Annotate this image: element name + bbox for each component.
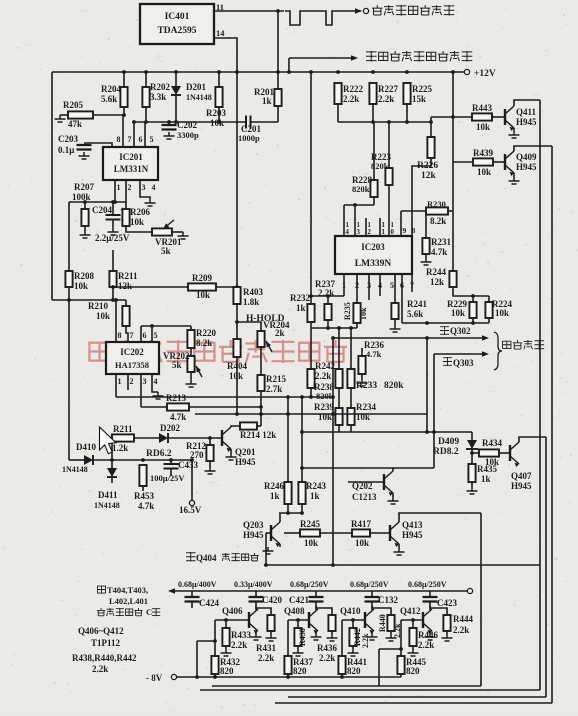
wire row y432 to D409 <box>302 431 472 433</box>
svg-text:Q302: Q302 <box>450 326 471 336</box>
node right col/rail <box>451 70 455 74</box>
resistor R443 <box>472 113 492 120</box>
wire bottom row 2 <box>200 689 540 691</box>
ground at R236 <box>357 379 368 386</box>
wire row y513 <box>279 512 302 514</box>
ground at VR202 <box>186 380 197 387</box>
wire to VR204 <box>237 322 261 331</box>
ground at Q409 <box>509 177 520 184</box>
wire IC203 pin2 riser <box>356 274 358 303</box>
svg-text:1000p: 1000p <box>238 133 260 143</box>
transistor Q413 H945 <box>390 522 399 547</box>
terminal 16.5V <box>189 500 194 505</box>
svg-text:R235: R235 <box>343 302 352 320</box>
svg-text:R226: R226 <box>417 161 438 171</box>
wire right vertical 3 <box>545 437 547 697</box>
svg-text:D201: D201 <box>186 82 206 92</box>
svg-text:R243: R243 <box>306 481 326 491</box>
node pin14/rail <box>235 70 239 74</box>
wire Q202 base <box>348 481 384 483</box>
svg-text:0.1μ: 0.1μ <box>58 145 74 155</box>
svg-text:2k: 2k <box>275 328 285 338</box>
svg-text:R222: R222 <box>343 84 363 94</box>
resistor R201 <box>274 89 281 106</box>
svg-text:2.2k: 2.2k <box>453 625 469 635</box>
svg-text:2.7k: 2.7k <box>266 384 282 394</box>
svg-text:C132: C132 <box>378 595 398 605</box>
terminal output right <box>467 588 472 593</box>
svg-text:- 8V: - 8V <box>146 673 163 683</box>
resistor R202 <box>142 87 149 107</box>
svg-text:D411: D411 <box>98 490 118 500</box>
node 3color/rail <box>287 70 291 74</box>
svg-text:1: 1 <box>391 222 395 229</box>
svg-text:C204: C204 <box>92 205 112 215</box>
svg-text:6: 6 <box>139 135 143 144</box>
wire Q202 emitter <box>392 493 394 497</box>
resistor R404 <box>233 339 240 357</box>
wire drop from Q302 line <box>426 338 428 432</box>
svg-text:+12V: +12V <box>474 69 496 79</box>
node R227/rail <box>371 70 375 74</box>
diode D201 1N4148 <box>171 86 181 95</box>
wire Q201 collector to R214 <box>231 426 240 427</box>
wire row y296 <box>311 295 344 297</box>
wire rail2 y122 <box>338 121 431 123</box>
resistor R204 <box>120 87 127 107</box>
wire under R229/R224 <box>402 322 489 324</box>
terminal +12V <box>464 69 469 74</box>
wire Q203 base drop <box>265 533 267 565</box>
svg-text:4: 4 <box>346 229 350 236</box>
wire Q412 base corner down <box>400 620 402 656</box>
wire Q201 emitter <box>230 449 232 453</box>
wire IC203 pin11 riser <box>379 218 381 236</box>
ground at Q411 <box>509 131 520 138</box>
capacitor C423 <box>423 597 438 602</box>
wire drop from Q303 line <box>433 354 435 468</box>
svg-text:R211: R211 <box>113 424 133 434</box>
svg-text:Q410: Q410 <box>340 606 361 616</box>
wire IC203 pin6 riser <box>401 274 403 323</box>
wire to 16.5V terminal <box>191 460 193 500</box>
wire Q411 collector <box>514 100 540 106</box>
svg-text:D202: D202 <box>160 423 180 433</box>
svg-text:R241: R241 <box>407 299 427 309</box>
text 'to' (CJK) <box>443 357 452 366</box>
resistor R220 <box>187 330 194 348</box>
svg-text:C433: C433 <box>178 460 198 470</box>
node Q302 wire start <box>331 336 335 340</box>
resistor R435 <box>468 464 475 482</box>
wire Q406 collector <box>255 606 257 610</box>
wire IC201 pin7 riser <box>122 115 124 147</box>
svg-text:2.2k: 2.2k <box>378 94 394 104</box>
svg-text:2: 2 <box>128 183 132 192</box>
svg-text:H945: H945 <box>402 530 423 540</box>
svg-text:R245: R245 <box>300 519 320 529</box>
svg-text:H945: H945 <box>516 162 537 172</box>
svg-text:2.2k: 2.2k <box>258 653 274 663</box>
wire R215 col down to R214 <box>260 391 262 426</box>
svg-text:10k: 10k <box>96 311 110 321</box>
node R211/R209 <box>111 285 115 289</box>
svg-text:Q201: Q201 <box>235 447 256 457</box>
node R202/rail <box>144 70 148 74</box>
capacitor C424 <box>185 597 200 602</box>
wire bottom row 3 <box>288 696 546 698</box>
wire row y468 to Q202 collector <box>302 467 434 469</box>
wire drop to +12V rail <box>288 58 290 72</box>
wire inner box left edge <box>378 649 380 686</box>
wire IC203 pin1 riser <box>343 274 345 296</box>
svg-text:2.2k: 2.2k <box>319 653 335 663</box>
wire to Q302 <box>333 337 486 339</box>
wire +12V rail <box>52 71 464 73</box>
svg-text:5.6k: 5.6k <box>407 309 423 319</box>
svg-text:R204: R204 <box>101 84 121 94</box>
wire Q202 collector <box>392 468 394 471</box>
node R204/R205 <box>122 113 126 117</box>
svg-text:Q413: Q413 <box>402 520 423 530</box>
svg-text:1: 1 <box>118 377 122 386</box>
svg-text:100μ/25V: 100μ/25V <box>150 473 185 483</box>
wire to R213 <box>141 406 167 408</box>
resistor R440 <box>387 615 394 631</box>
svg-text:0.68μ/250V: 0.68μ/250V <box>408 580 447 589</box>
capacitor C433 100u/25V <box>164 464 179 469</box>
capacitor C202 3300p <box>162 125 177 130</box>
svg-text:Q404: Q404 <box>196 553 217 563</box>
ground at R205 <box>55 115 66 122</box>
wire feed row y641 <box>197 640 215 642</box>
potentiometer VR202 body <box>187 356 194 372</box>
svg-text:1N4148: 1N4148 <box>62 465 88 474</box>
wire Q408 base row <box>288 619 309 621</box>
svg-text:12k: 12k <box>430 277 444 287</box>
svg-text:1N4148: 1N4148 <box>186 93 212 102</box>
resistor R241 <box>391 303 398 319</box>
resistor R206 <box>122 209 129 226</box>
diode D410 1N4148 <box>84 455 93 465</box>
ground at VR201 <box>178 232 189 239</box>
resistor R239 <box>335 408 342 425</box>
transistor Q407 H945 <box>510 442 519 467</box>
svg-text:H945: H945 <box>511 481 532 491</box>
svg-text:L402,L401: L402,L401 <box>109 596 148 606</box>
svg-text:4.7k: 4.7k <box>138 501 154 511</box>
svg-text:R234: R234 <box>356 402 376 412</box>
svg-text:R417: R417 <box>351 519 371 529</box>
svg-text:15k: 15k <box>412 94 426 104</box>
wire Q410 collector <box>371 606 373 610</box>
svg-text:4: 4 <box>154 377 158 386</box>
svg-text:R230: R230 <box>427 199 446 209</box>
mouse cursor arrow <box>100 427 117 454</box>
capacitor C421 <box>309 597 324 602</box>
transistor Q202 C1213 <box>384 471 393 496</box>
resistor R237 <box>324 304 331 320</box>
node D201/rail <box>174 70 178 74</box>
wire row y328 <box>311 327 357 329</box>
svg-text:R403: R403 <box>243 287 263 297</box>
svg-text:8: 8 <box>412 226 416 235</box>
svg-text:5: 5 <box>154 331 158 340</box>
svg-text:1: 1 <box>117 183 121 192</box>
svg-text:IC203: IC203 <box>361 242 385 252</box>
svg-text:2: 2 <box>130 377 134 386</box>
capacitor C203 0.1u <box>77 145 92 150</box>
wire to R443 <box>431 116 472 118</box>
svg-text:R206: R206 <box>130 207 150 217</box>
resistor R227 <box>369 83 376 104</box>
svg-text:8.2k: 8.2k <box>430 216 446 226</box>
resistor R432 <box>211 656 218 674</box>
svg-text:R246: R246 <box>264 481 284 491</box>
svg-text:10k: 10k <box>359 307 368 320</box>
svg-text:R202: R202 <box>150 82 170 92</box>
resistor R211 12k <box>109 271 116 287</box>
wire IC201 pin1 riser <box>114 180 116 202</box>
diode D202 zener RD6.2 <box>159 433 168 443</box>
brace for field-amp adjust <box>494 332 502 370</box>
svg-text:9: 9 <box>403 226 407 235</box>
svg-text:12k: 12k <box>118 281 132 291</box>
resistor R205 <box>68 111 93 118</box>
wire IC203 pin4 riser <box>379 274 381 296</box>
wire Q203 base <box>266 532 271 534</box>
resistor R210 <box>122 306 129 326</box>
wire to D410 <box>69 459 84 461</box>
wire col x288 down to R246 <box>287 397 289 482</box>
wire to IC202 pin8 <box>115 300 117 342</box>
wire row y300 <box>52 299 126 301</box>
text 'to 3-color display control circuit' (CJK) <box>366 51 377 62</box>
IC U IC201 LM331N box <box>103 147 158 180</box>
diode D411 1N4148 <box>107 468 117 477</box>
wire D410 row <box>93 459 192 461</box>
wire IC203 pin5 riser <box>394 274 396 303</box>
resistor R232 <box>307 304 314 322</box>
wire Q406 base corner down <box>214 620 216 656</box>
wire Q203 collector <box>279 513 281 522</box>
resistor R453 <box>139 465 146 486</box>
text 'H sync pulse input' (CJK) <box>372 5 383 15</box>
svg-text:2.2μ/25V: 2.2μ/25V <box>95 233 130 243</box>
svg-text:Q203: Q203 <box>243 520 264 530</box>
svg-text:HA17358: HA17358 <box>115 360 149 370</box>
svg-text:5: 5 <box>150 135 154 144</box>
svg-text:3: 3 <box>357 229 361 236</box>
wire long vertical x333 <box>332 338 334 565</box>
ground at C202 <box>164 132 175 139</box>
wire R211b to D202 <box>134 437 159 439</box>
wire Q410 base row <box>342 619 365 621</box>
node bus/rail <box>309 70 313 74</box>
wire IC201 pin2 to R206 <box>125 180 127 209</box>
ground at Q201 <box>226 453 237 460</box>
potentiometer VR204 body <box>257 331 264 347</box>
ground at R435 <box>467 487 478 494</box>
svg-text:0.68μ/250V: 0.68μ/250V <box>350 580 389 589</box>
svg-text:D410: D410 <box>76 442 96 452</box>
ground at R241 <box>390 325 401 332</box>
ground at C203 <box>79 152 90 159</box>
svg-text:7: 7 <box>128 135 132 144</box>
svg-text:5.6k: 5.6k <box>101 94 117 104</box>
svg-text:2.2k: 2.2k <box>343 94 359 104</box>
svg-text:6: 6 <box>143 331 147 340</box>
svg-text:47k: 47k <box>68 119 82 129</box>
svg-text:1: 1 <box>368 222 372 229</box>
wire Q408 base corner down <box>287 620 289 656</box>
wire Q406 emitter <box>255 631 257 633</box>
op-amp U IC401 TDA2595 box <box>140 4 214 44</box>
wire IC202 pin5 riser <box>151 326 153 342</box>
transistor Q406 TIP112 <box>249 609 258 634</box>
node R201 col/rail <box>276 70 280 74</box>
svg-text:1.8k: 1.8k <box>243 297 259 307</box>
svg-text:R433: R433 <box>231 630 251 640</box>
ground IC201 pin3 <box>145 199 156 206</box>
wire IC202 pin2 down <box>127 374 129 390</box>
svg-text:LM339N: LM339N <box>355 259 392 269</box>
svg-text:H945: H945 <box>243 530 264 540</box>
svg-text:R231: R231 <box>431 237 451 247</box>
wire Q412 emitter <box>429 631 431 633</box>
wire row y397 <box>116 396 333 398</box>
wire R211b left down <box>111 438 113 460</box>
resistor R236 <box>358 356 365 374</box>
wire IC203 pin12 riser <box>365 218 367 236</box>
svg-text:R232: R232 <box>290 293 310 303</box>
resistor R211 1.2k <box>112 434 134 441</box>
IC U IC202 HA17358 box <box>106 342 159 374</box>
IC U IC203 LM339N box <box>335 236 412 274</box>
svg-text:10k: 10k <box>477 167 491 177</box>
resistor R215 2.7k <box>257 375 264 391</box>
svg-text:Q412: Q412 <box>400 606 421 616</box>
svg-text:2.2k: 2.2k <box>92 664 108 674</box>
svg-text:R225: R225 <box>412 84 432 94</box>
svg-text:R443: R443 <box>472 103 492 113</box>
svg-text:LM331N: LM331N <box>114 164 149 174</box>
svg-text:10k: 10k <box>130 217 144 227</box>
resistor R235 <box>353 303 360 323</box>
svg-text:820: 820 <box>347 666 361 676</box>
svg-text:RD6.2: RD6.2 <box>146 449 172 459</box>
svg-text:1k: 1k <box>481 474 491 484</box>
wire IC202 pin6 riser <box>140 326 142 342</box>
resistor R234 <box>347 408 354 425</box>
svg-text:2.2k: 2.2k <box>418 640 434 650</box>
svg-text:R220: R220 <box>196 328 216 338</box>
resistor <box>349 628 356 646</box>
resistor R208 <box>65 271 72 287</box>
svg-text:0.68μ/250V: 0.68μ/250V <box>290 580 329 589</box>
resistor R213 <box>167 403 189 410</box>
svg-text:100k: 100k <box>72 192 91 202</box>
svg-text:10k: 10k <box>229 371 243 381</box>
resistor R437 <box>284 656 291 674</box>
wire R210 to IC202 pin7 <box>126 326 128 342</box>
node R222/rail <box>336 70 340 74</box>
wire col x302 down to R243 <box>301 397 303 482</box>
wire Q408 collector <box>315 606 317 610</box>
svg-text:R440: R440 <box>378 614 387 632</box>
wire row y414 <box>195 413 427 415</box>
svg-text:R444: R444 <box>453 614 473 624</box>
svg-text:2.2k: 2.2k <box>361 633 370 648</box>
text 'via T404,T403,L402,L401 to line output transistor C' (CJK) <box>98 586 106 593</box>
svg-text:R439: R439 <box>473 148 493 158</box>
waveform sync pulse symbol <box>285 11 342 25</box>
svg-text:14: 14 <box>216 28 225 38</box>
wire pin14 column down to R403 <box>236 72 238 287</box>
svg-text:3: 3 <box>142 183 146 192</box>
wire Q413 emitter <box>398 544 400 548</box>
svg-text:5k: 5k <box>161 246 171 256</box>
svg-text:7: 7 <box>130 331 134 340</box>
capacitor C201 1000p <box>246 116 251 129</box>
resistor R224 <box>485 302 492 318</box>
svg-text:R431: R431 <box>256 643 276 653</box>
svg-text:0.33μ/400V: 0.33μ/400V <box>234 580 273 589</box>
resistor R214 12k <box>240 422 257 429</box>
wire IC203 pin7 riser <box>411 274 413 292</box>
node junction pin11/R201 <box>276 9 280 13</box>
wire Q406 base row <box>215 619 249 621</box>
wire R232 col down <box>310 328 312 369</box>
resistor R431 <box>267 615 274 631</box>
svg-text:C203: C203 <box>58 134 78 144</box>
svg-text:R239: R239 <box>314 402 334 412</box>
wire Q410 base corner down <box>341 620 343 656</box>
capacitor C132 <box>365 597 380 602</box>
resistor R433 <box>222 628 229 646</box>
svg-text:10k: 10k <box>355 538 369 548</box>
svg-text:Q407: Q407 <box>511 471 532 481</box>
svg-text:C1213: C1213 <box>352 492 377 502</box>
wire R211 top riser <box>112 250 114 271</box>
wire R207 col down <box>68 202 70 271</box>
svg-text:10k: 10k <box>476 122 490 132</box>
resistor R238 820k <box>335 369 342 388</box>
resistor R207 <box>81 209 88 226</box>
svg-text:T404,T403,: T404,T403, <box>107 585 148 595</box>
svg-text:Q411: Q411 <box>516 107 537 117</box>
ground IC202 pin4 <box>153 392 164 399</box>
resistor R444 <box>443 615 450 631</box>
wire node under IC201 pins <box>134 121 246 123</box>
wire to 3-color display control <box>289 57 353 59</box>
resistor R245 <box>300 529 320 536</box>
wire Q408 emitter <box>315 631 317 633</box>
svg-text:820: 820 <box>406 666 420 676</box>
resistor R229 <box>469 302 476 318</box>
svg-text:2.2k: 2.2k <box>231 640 247 650</box>
wire right vertical 1 <box>539 100 541 690</box>
wire IC201 pin3/4 to ground <box>140 180 150 199</box>
resistor R246 <box>284 482 291 504</box>
wire right vertical 2 <box>551 146 553 703</box>
resistor R231 <box>422 238 429 254</box>
node R225/rail <box>405 70 409 74</box>
wire node row y202 <box>69 201 126 203</box>
wire right inner vertical <box>480 513 482 686</box>
resistor R222 <box>334 83 341 104</box>
transistor Q411 H945 <box>505 106 514 131</box>
